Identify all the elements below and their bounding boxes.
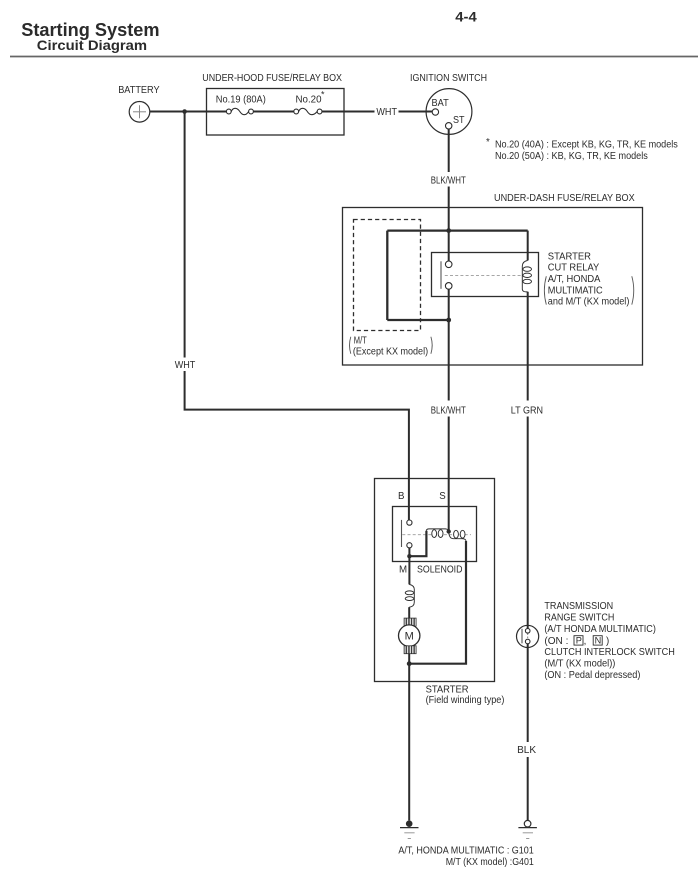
starter box bbox=[375, 479, 495, 682]
svg-text:WHT: WHT bbox=[376, 107, 397, 118]
junction node A bbox=[182, 109, 187, 114]
wire relay coil feed bbox=[527, 231, 529, 261]
svg-text:No.19 (80A): No.19 (80A) bbox=[216, 95, 266, 106]
junction node D bbox=[407, 661, 412, 666]
relay contact circle top bbox=[445, 261, 452, 268]
wire field coil to motor bbox=[408, 607, 410, 618]
ground G401 right bbox=[524, 820, 531, 827]
svg-text:M/T (KX model) :G401: M/T (KX model) :G401 bbox=[446, 857, 534, 868]
svg-text:MULTIMATIC: MULTIMATIC bbox=[548, 285, 603, 296]
fuse No.19 bbox=[231, 108, 248, 114]
svg-text:A/T, HONDA: A/T, HONDA bbox=[548, 274, 601, 285]
svg-text:CUT RELAY: CUT RELAY bbox=[548, 263, 600, 274]
svg-text:IGNITION SWITCH: IGNITION SWITCH bbox=[410, 73, 487, 84]
svg-text:,: , bbox=[584, 636, 587, 647]
wire motor to ground node bbox=[408, 654, 410, 664]
svg-text:BATTERY: BATTERY bbox=[118, 85, 160, 96]
wire BLK/WHT to under-dash box bbox=[448, 187, 450, 262]
junction node C bbox=[446, 318, 451, 323]
transmission range switch SW2 bbox=[517, 625, 539, 647]
svg-text:(Except KX model): (Except KX model) bbox=[353, 347, 428, 358]
svg-text:No.20 (50A) : KB, KG, TR, KE m: No.20 (50A) : KB, KG, TR, KE models bbox=[495, 151, 648, 162]
motor M1 bbox=[399, 625, 420, 646]
solenoid contact circle B bbox=[407, 520, 412, 525]
svg-text:BAT: BAT bbox=[432, 98, 449, 109]
M/T label parens bbox=[350, 337, 351, 354]
wire WHT label to BAT terminal bbox=[399, 111, 433, 113]
svg-text:BLK/WHT: BLK/WHT bbox=[431, 175, 466, 186]
header rule bbox=[10, 56, 698, 58]
ground G101 left bbox=[406, 820, 413, 827]
svg-text:RANGE SWITCH: RANGE SWITCH bbox=[544, 613, 614, 624]
svg-text:*: * bbox=[486, 137, 490, 148]
svg-text:(A/T HONDA MULTIMATIC): (A/T HONDA MULTIMATIC) bbox=[544, 624, 656, 635]
svg-text:BLK/WHT: BLK/WHT bbox=[431, 405, 466, 416]
hold-in coil L3 bbox=[449, 532, 466, 542]
wire fuse box to WHT label bbox=[322, 111, 375, 113]
M/T dashed box bbox=[354, 220, 421, 331]
svg-text:(Field winding type): (Field winding type) bbox=[426, 695, 505, 706]
svg-text:UNDER-HOOD FUSE/RELAY BOX: UNDER-HOOD FUSE/RELAY BOX bbox=[202, 73, 342, 84]
svg-text:M: M bbox=[405, 631, 414, 643]
wire BLK to ground bbox=[527, 757, 529, 820]
svg-text:M/T: M/T bbox=[354, 336, 367, 347]
svg-text:STARTER: STARTER bbox=[548, 252, 591, 263]
svg-text:4-4: 4-4 bbox=[455, 9, 477, 25]
svg-text:UNDER-DASH FUSE/RELAY BOX: UNDER-DASH FUSE/RELAY BOX bbox=[494, 193, 635, 204]
svg-text:B: B bbox=[398, 491, 404, 502]
svg-text:N: N bbox=[595, 636, 602, 646]
switch bar bbox=[521, 629, 523, 644]
M/T bypass wire bbox=[387, 231, 527, 320]
wire between fuses bbox=[253, 111, 293, 113]
wire M node to pull-in coil bbox=[409, 531, 426, 557]
svg-text:(M/T (KX model)): (M/T (KX model)) bbox=[544, 659, 615, 670]
svg-text:): ) bbox=[606, 636, 609, 647]
svg-text:A/T, HONDA MULTIMATIC : G101: A/T, HONDA MULTIMATIC : G101 bbox=[398, 845, 533, 856]
solenoid contact circle M bbox=[407, 543, 412, 548]
svg-text:TRANSMISSION: TRANSMISSION bbox=[544, 601, 613, 612]
svg-text:S: S bbox=[439, 491, 446, 502]
svg-text:P: P bbox=[576, 636, 582, 646]
wire WHT battery branch bbox=[184, 112, 186, 358]
svg-text:SOLENOID: SOLENOID bbox=[417, 565, 463, 576]
relay coil L1 bbox=[522, 260, 527, 291]
wire battery to fuse box bbox=[150, 111, 206, 113]
fuse No.20 bbox=[299, 108, 318, 114]
motor brush bottom bbox=[404, 646, 416, 654]
junction node B bbox=[446, 228, 451, 233]
svg-text:(ON :: (ON : bbox=[544, 636, 568, 647]
wire into fuse 19 bbox=[206, 111, 226, 113]
svg-text:WHT: WHT bbox=[175, 360, 196, 371]
switch dotted gap bbox=[527, 634, 529, 640]
svg-text:ST: ST bbox=[453, 115, 465, 126]
wire WHT to starter B bbox=[185, 371, 409, 520]
wire switch to BLK label bbox=[527, 644, 529, 742]
svg-text:BLK: BLK bbox=[517, 745, 537, 756]
svg-text:(ON : Pedal depressed): (ON : Pedal depressed) bbox=[544, 670, 640, 681]
wire BLK/WHT to solenoid S bbox=[448, 417, 450, 532]
wire LT GRN to switch bbox=[527, 417, 529, 629]
svg-text:No.20 (40A) : Except KB, KG, T: No.20 (40A) : Except KB, KG, TR, KE mode… bbox=[495, 139, 678, 150]
field winding L4 bbox=[409, 584, 414, 607]
starter cut relay box bbox=[432, 253, 539, 297]
switch contact top bbox=[527, 625, 529, 629]
under-hood fuse/relay box bbox=[207, 89, 345, 136]
svg-text:CLUTCH INTERLOCK SWITCH: CLUTCH INTERLOCK SWITCH bbox=[544, 647, 674, 658]
pull-in coil L2 bbox=[426, 529, 448, 532]
wire ST down bbox=[448, 129, 450, 172]
under-dash fuse/relay box bbox=[343, 208, 643, 366]
svg-text:M: M bbox=[399, 565, 407, 576]
svg-text:and M/T (KX model): and M/T (KX model) bbox=[548, 296, 630, 307]
relay contact circle bottom bbox=[445, 283, 452, 290]
solenoid box bbox=[393, 507, 477, 562]
wire hold-in coil return bbox=[409, 541, 466, 664]
wire contact to M node bbox=[408, 548, 410, 585]
wire BLK/WHT below box bbox=[448, 320, 450, 401]
wire LT GRN upper bbox=[527, 292, 529, 401]
relay dashed link bbox=[445, 275, 522, 277]
svg-text:No.20: No.20 bbox=[296, 95, 323, 106]
motor brush top bbox=[404, 618, 416, 626]
wire starter to ground bbox=[408, 664, 410, 821]
svg-text:STARTER: STARTER bbox=[426, 685, 469, 696]
ignition switch SW1 bbox=[426, 89, 472, 135]
svg-text:*: * bbox=[321, 90, 325, 100]
solenoid dashed link bbox=[402, 534, 471, 536]
svg-text:Circuit Diagram: Circuit Diagram bbox=[37, 37, 147, 53]
wire relay out bbox=[448, 289, 450, 320]
solenoid armature bar bbox=[401, 520, 403, 547]
relay armature bar bbox=[440, 261, 442, 289]
battery B1 bbox=[129, 102, 150, 123]
relay label parens bbox=[544, 276, 546, 304]
junction node S bbox=[447, 529, 451, 533]
junction node M bbox=[407, 554, 411, 558]
switch contact bottom bbox=[525, 639, 530, 644]
svg-text:LT GRN: LT GRN bbox=[511, 405, 543, 416]
